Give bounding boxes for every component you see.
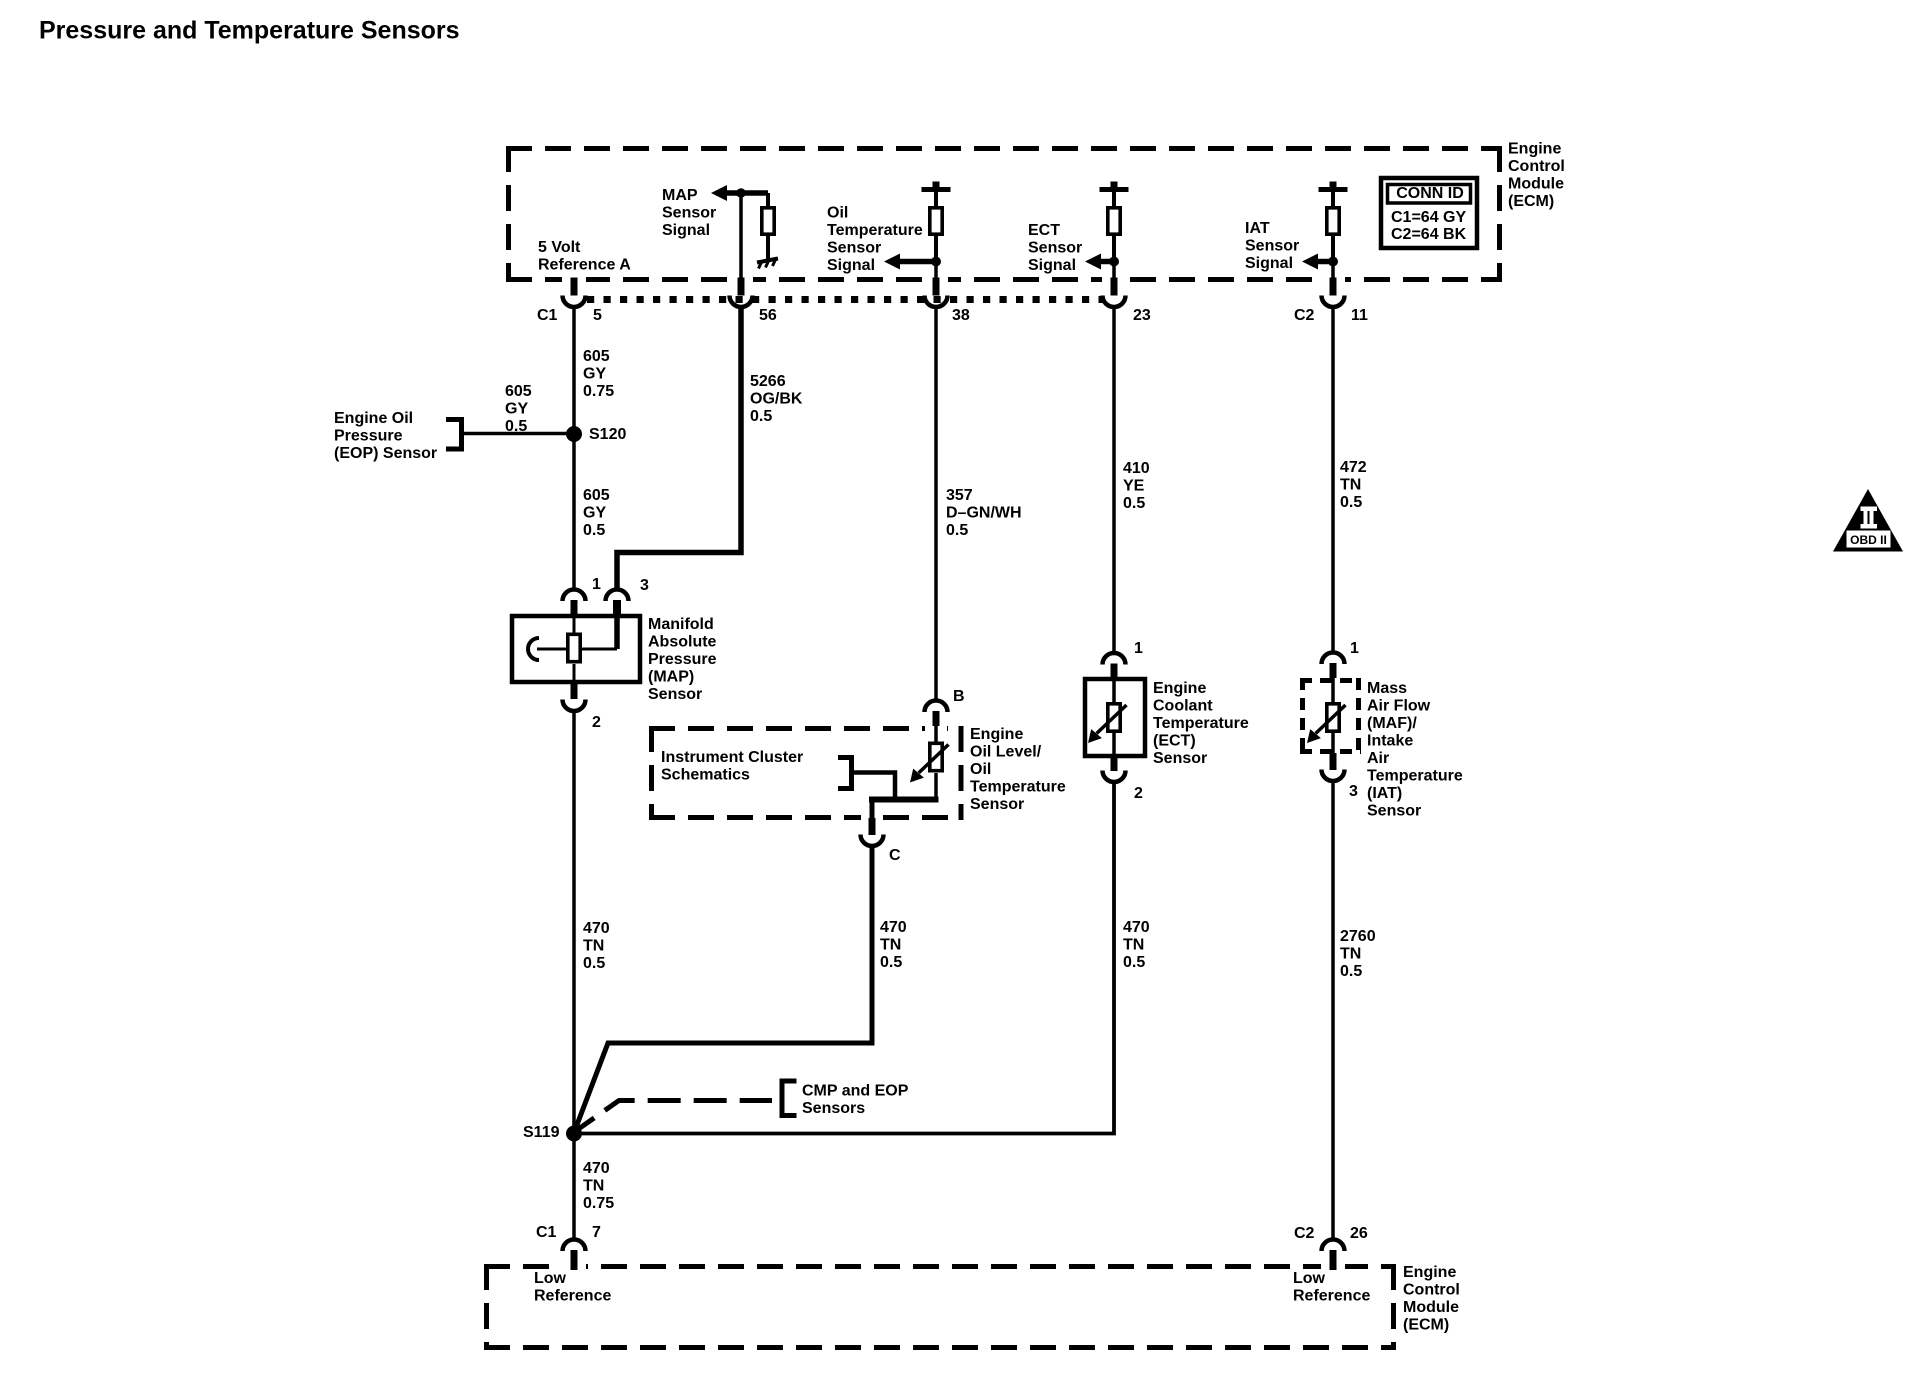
svg-text:0.5: 0.5 <box>1340 494 1362 511</box>
svg-text:Pressure: Pressure <box>334 427 403 444</box>
svg-text:3: 3 <box>640 577 649 594</box>
svg-text:C1: C1 <box>536 1224 557 1241</box>
svg-text:Sensor: Sensor <box>648 686 702 703</box>
svg-text:Absolute: Absolute <box>648 633 717 650</box>
MAP sensor pin 3 connector <box>606 590 629 602</box>
svg-text:0.5: 0.5 <box>750 408 772 425</box>
svg-text:470: 470 <box>880 919 907 936</box>
svg-text:Low: Low <box>534 1270 567 1287</box>
svg-text:2: 2 <box>1134 785 1143 802</box>
MAP signal arrow (into ECM) <box>724 190 768 196</box>
splice S120 <box>566 426 582 442</box>
svg-text:Signal: Signal <box>662 222 710 239</box>
instrument cluster bracket <box>838 755 852 791</box>
svg-text:Intake: Intake <box>1367 732 1413 749</box>
pin C1-5 connector arc <box>563 296 586 308</box>
svg-text:Coolant: Coolant <box>1153 697 1213 714</box>
svg-text:0.5: 0.5 <box>1123 954 1145 971</box>
ECM module dashed box (top) <box>506 146 1502 282</box>
svg-text:11: 11 <box>1351 307 1368 324</box>
svg-text:YE: YE <box>1123 477 1145 494</box>
pull-down resistor R-MAP (inside ECM) <box>766 193 770 207</box>
svg-text:TN: TN <box>880 936 901 953</box>
svg-text:Engine: Engine <box>1508 140 1561 157</box>
ECT sensor pin 1 connector <box>1103 653 1126 665</box>
svg-text:Signal: Signal <box>827 257 875 274</box>
svg-text:CONN ID: CONN ID <box>1396 185 1464 202</box>
C1 connector dotted line (pins 5-56-38-23) <box>587 296 1103 303</box>
svg-text:0.75: 0.75 <box>583 383 614 400</box>
svg-text:Air: Air <box>1367 750 1389 767</box>
wire pin56 internal drop <box>739 193 743 278</box>
svg-text:0.5: 0.5 <box>583 955 605 972</box>
wire 410 YE 0.5 (pin 23 to ECT pin 1) <box>1112 307 1116 656</box>
OBD II symbol <box>1833 489 1903 552</box>
svg-text:470: 470 <box>1123 919 1150 936</box>
IAT sensor pin 3 connector <box>1330 753 1337 770</box>
svg-text:Signal: Signal <box>1245 255 1293 272</box>
svg-text:Pressure: Pressure <box>648 651 717 668</box>
svg-text:Oil Level/: Oil Level/ <box>970 743 1042 760</box>
ECM C2-26 connector <box>1322 1240 1345 1252</box>
svg-text:Pressure and Temperature Senso: Pressure and Temperature Sensors <box>39 17 460 45</box>
svg-text:Sensor: Sensor <box>827 239 881 256</box>
CMP and EOP sensors bracket <box>782 1079 797 1119</box>
svg-text:Sensors: Sensors <box>802 1100 865 1117</box>
svg-text:357: 357 <box>946 487 973 504</box>
svg-text:C2: C2 <box>1294 1225 1315 1242</box>
MAP internal wires <box>574 618 617 682</box>
wire EOP sensor to S120 <box>462 432 571 436</box>
svg-text:Reference: Reference <box>1293 1287 1370 1304</box>
svg-text:MAP: MAP <box>662 187 698 204</box>
pin C1-5 terminal stub <box>571 278 578 296</box>
svg-text:OG/BK: OG/BK <box>750 390 803 407</box>
wire 357 D-GN/WH 0.5 (pin 38 to oil sensor pin B) <box>934 307 938 703</box>
svg-text:410: 410 <box>1123 460 1150 477</box>
svg-text:C1=64 GY: C1=64 GY <box>1391 209 1466 226</box>
svg-text:5: 5 <box>593 307 602 324</box>
svg-text:0.5: 0.5 <box>880 954 902 971</box>
wire 472 TN 0.5 (pin 11 to IAT pin 1) <box>1331 307 1335 654</box>
svg-text:C1: C1 <box>537 307 558 324</box>
wire 5266 OG/BK 0.5 (pin 56 to MAP pin 3) <box>617 307 741 591</box>
junction dot at x=1333 <box>1328 257 1338 267</box>
gaps in ECM bottom edge at pin stubs <box>562 275 586 284</box>
svg-text:Engine: Engine <box>1153 680 1206 697</box>
svg-text:605: 605 <box>505 383 532 400</box>
svg-text:5 Volt: 5 Volt <box>538 239 581 256</box>
svg-text:7: 7 <box>592 1224 601 1241</box>
svg-text:TN: TN <box>1340 476 1361 493</box>
connector arc at x=1333 <box>1322 296 1345 308</box>
svg-text:0.5: 0.5 <box>1123 495 1145 512</box>
oil sensor pin C connector <box>869 818 876 835</box>
svg-text:(IAT): (IAT) <box>1367 785 1402 802</box>
svg-text:Engine: Engine <box>1403 1264 1456 1281</box>
svg-text:Reference A: Reference A <box>538 256 631 273</box>
MAF/IAT sensor dashed box <box>1300 678 1361 754</box>
5V rail T-bar at x=936 <box>922 187 951 192</box>
EOP sensor bracket <box>446 417 462 452</box>
svg-text:Module: Module <box>1403 1299 1459 1316</box>
svg-text:2: 2 <box>592 714 601 731</box>
svg-text:CMP and EOP: CMP and EOP <box>802 1082 909 1099</box>
wire 2760 TN 0.5 (IAT pin 3 to ECM C2-26) <box>1331 781 1335 1240</box>
ECT thermistor <box>1112 681 1116 703</box>
svg-text:Oil: Oil <box>827 204 848 221</box>
svg-text:S119: S119 <box>523 1124 560 1141</box>
5V rail T-bar at x=1333 <box>1319 187 1348 192</box>
svg-text:0.5: 0.5 <box>583 522 605 539</box>
junction dot at x=936 <box>931 257 941 267</box>
svg-text:Module: Module <box>1508 175 1564 192</box>
svg-text:GY: GY <box>505 400 528 417</box>
svg-text:OBD II: OBD II <box>1850 533 1887 547</box>
svg-text:Temperature: Temperature <box>827 222 923 239</box>
signal arrow (into ECM) at x=936 <box>897 259 936 265</box>
svg-text:3: 3 <box>1349 783 1358 800</box>
svg-text:B: B <box>953 688 965 705</box>
svg-text:Temperature: Temperature <box>1153 715 1249 732</box>
svg-text:Reference: Reference <box>534 1287 611 1304</box>
svg-text:Schematics: Schematics <box>661 766 750 783</box>
svg-text:0.5: 0.5 <box>1340 963 1362 980</box>
svg-text:1: 1 <box>592 576 601 593</box>
pin 56 terminal stub <box>738 278 745 296</box>
svg-text:GY: GY <box>583 365 606 382</box>
Instrument Cluster Schematics dashed box <box>649 726 964 820</box>
svg-text:TN: TN <box>583 937 604 954</box>
svg-text:38: 38 <box>952 307 970 324</box>
svg-text:472: 472 <box>1340 459 1367 476</box>
svg-text:Mass: Mass <box>1367 680 1407 697</box>
svg-text:(MAF)/: (MAF)/ <box>1367 715 1417 732</box>
signal arrow (into ECM) at x=1333 <box>1315 259 1333 265</box>
5V rail T-bar at x=1114 <box>1100 187 1129 192</box>
svg-text:D–GN/WH: D–GN/WH <box>946 504 1022 521</box>
svg-text:C2=64 BK: C2=64 BK <box>1391 226 1467 243</box>
svg-text:605: 605 <box>583 348 610 365</box>
svg-text:Manifold: Manifold <box>648 616 714 633</box>
wire 470 TN 0.5 (ECT pin 2 to S119) <box>580 782 1114 1134</box>
svg-text:26: 26 <box>1350 1225 1368 1242</box>
pull-up resistor inside ECM at x=1114 <box>1112 192 1116 207</box>
svg-text:Engine Oil: Engine Oil <box>334 410 413 427</box>
oil sensor drop to pin C <box>870 800 875 821</box>
wire internal drop at x=1333 <box>1331 262 1335 279</box>
IAT thermistor <box>1331 677 1335 703</box>
junction dot pin 56 node <box>736 188 745 197</box>
svg-text:0.75: 0.75 <box>583 1195 614 1212</box>
svg-text:Control: Control <box>1403 1281 1460 1298</box>
svg-text:C: C <box>889 847 901 864</box>
svg-text:Sensor: Sensor <box>1245 237 1299 254</box>
svg-text:TN: TN <box>1340 945 1361 962</box>
svg-text:(ECM): (ECM) <box>1508 193 1554 210</box>
svg-text:ECT: ECT <box>1028 222 1060 239</box>
svg-text:0.5: 0.5 <box>946 522 968 539</box>
svg-text:Sensor: Sensor <box>1153 750 1207 767</box>
CONN ID table <box>1381 178 1477 248</box>
pull-up resistor inside ECM at x=936 <box>934 192 938 207</box>
svg-text:GY: GY <box>583 504 606 521</box>
svg-text:Sensor: Sensor <box>970 796 1024 813</box>
ECM C1-7 connector <box>563 1240 586 1252</box>
MAP internal wire port-to-resistor <box>537 648 566 651</box>
pull-up resistor inside ECM at x=1333 <box>1331 192 1335 207</box>
oil sensor internal bus wire <box>869 797 939 803</box>
svg-text:Signal: Signal <box>1028 257 1076 274</box>
svg-text:Air Flow: Air Flow <box>1367 697 1431 714</box>
engine oil level/temperature sensing thermistor <box>934 725 938 742</box>
oil sensor pin B connector <box>925 701 948 713</box>
MAP sensor pin 1 connector <box>563 590 586 602</box>
wire bracket to oil sensor net <box>852 773 896 800</box>
svg-text:470: 470 <box>583 1160 610 1177</box>
wire internal drop at x=1114 <box>1112 262 1116 279</box>
svg-text:1: 1 <box>1134 640 1143 657</box>
MAP sensor pin 2 connector <box>571 682 578 699</box>
svg-text:(ECT): (ECT) <box>1153 732 1196 749</box>
terminal stub at x=1114 <box>1111 278 1118 296</box>
svg-text:Engine: Engine <box>970 726 1023 743</box>
svg-text:(MAP): (MAP) <box>648 668 694 685</box>
junction dot at x=1114 <box>1109 257 1119 267</box>
signal arrow (into ECM) at x=1114 <box>1098 259 1114 265</box>
IAT sensor pin 1 connector <box>1322 653 1345 665</box>
svg-text:TN: TN <box>1123 936 1144 953</box>
ground symbol (ECM internal) <box>757 259 778 269</box>
svg-text:1: 1 <box>1350 640 1359 657</box>
wire internal drop at x=936 <box>934 262 938 279</box>
wire 470 TN 0.5 (oil sensor pin C to S119) <box>575 845 872 1130</box>
svg-text:Temperature: Temperature <box>970 778 1066 795</box>
svg-text:56: 56 <box>759 307 777 324</box>
pin 56 connector arc <box>730 296 753 308</box>
gaps in instrument cluster box edges at pin stubs <box>925 724 947 733</box>
dashed wire to CMP and EOP sensors <box>577 1101 772 1131</box>
ECM module dashed box (bottom) <box>484 1264 1396 1350</box>
splice S119 <box>566 1126 582 1142</box>
svg-text:470: 470 <box>583 920 610 937</box>
connector arc at x=936 <box>925 296 948 308</box>
svg-text:23: 23 <box>1133 307 1151 324</box>
ECT sensor box <box>1085 679 1145 756</box>
svg-text:IAT: IAT <box>1245 220 1270 237</box>
svg-text:(EOP) Sensor: (EOP) Sensor <box>334 445 437 462</box>
svg-text:5266: 5266 <box>750 373 786 390</box>
ECT sensor pin 2 connector <box>1111 754 1118 771</box>
svg-text:Temperature: Temperature <box>1367 767 1463 784</box>
svg-text:Sensor: Sensor <box>662 204 716 221</box>
svg-text:Low: Low <box>1293 1270 1326 1287</box>
wire 470 TN 0.75 (S119 to ECM C1-7) <box>572 1134 576 1240</box>
svg-text:Control: Control <box>1508 158 1565 175</box>
svg-text:Sensor: Sensor <box>1028 239 1082 256</box>
terminal stub at x=936 <box>933 278 940 296</box>
svg-text:S120: S120 <box>589 426 626 443</box>
svg-text:(ECM): (ECM) <box>1403 1316 1449 1333</box>
wire 470 TN 0.5 (MAP pin 2 to S119) <box>572 711 576 1127</box>
terminal stub at x=1333 <box>1330 278 1337 296</box>
MAP internal pressure port symbol <box>528 638 539 660</box>
wire 605 GY 0.75 (pin 5 to S120) <box>572 307 576 429</box>
svg-text:TN: TN <box>583 1177 604 1194</box>
MAP sensor box <box>512 616 640 682</box>
svg-text:605: 605 <box>583 487 610 504</box>
svg-text:Instrument Cluster: Instrument Cluster <box>661 749 803 766</box>
svg-text:2760: 2760 <box>1340 928 1376 945</box>
svg-text:C2: C2 <box>1294 307 1315 324</box>
MAP internal sense resistor <box>568 634 580 661</box>
svg-text:Oil: Oil <box>970 761 991 778</box>
wire 605 GY 0.5 (S120 to MAP pin 1) <box>572 434 576 590</box>
gaps in bottom ECM top edge at pin stubs <box>562 1262 586 1271</box>
connector arc at x=1114 <box>1103 296 1126 308</box>
svg-text:Sensor: Sensor <box>1367 802 1421 819</box>
